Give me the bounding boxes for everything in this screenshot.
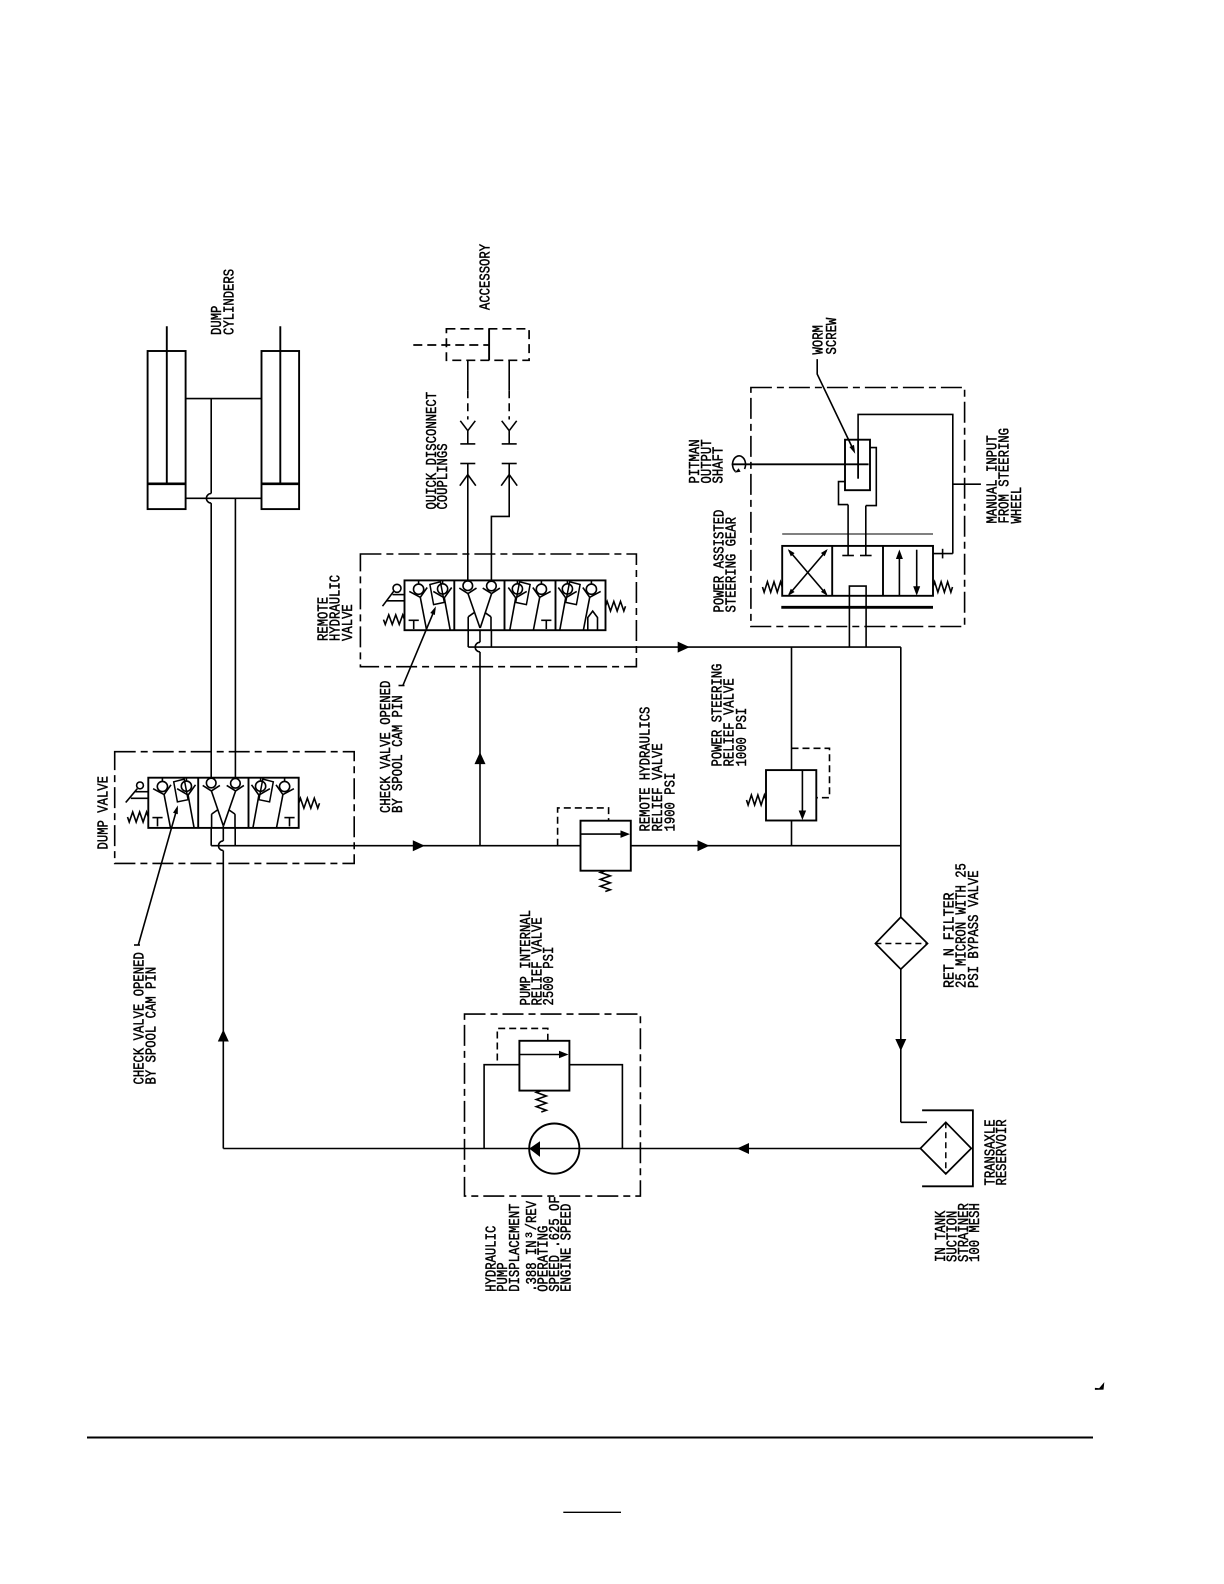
- wire steering relief drop lower: [791, 821, 793, 846]
- wire rod-end port line: [186, 398, 262, 400]
- dump cylinder 1 piston: [148, 482, 186, 485]
- steering valve center staple: [849, 586, 866, 647]
- wire filter to reservoir vertical: [900, 969, 902, 1122]
- steering relief pilot (dashed): [792, 748, 830, 797]
- power steering relief valve square: [766, 770, 816, 820]
- svg-text:DISPLACEMENT: DISPLACEMENT: [508, 1203, 524, 1292]
- pump flow triangle: [529, 1141, 540, 1157]
- dump cylinder 2 barrel: [262, 351, 300, 509]
- wire pump supply line vertical: [222, 851, 224, 1149]
- svg-text:CYLINDERS: CYLINDERS: [222, 269, 238, 335]
- dump valve section 3 (mirrored check valves): [252, 778, 295, 828]
- pump internal relief valve square: [519, 1041, 569, 1091]
- dump valve right spring: [299, 798, 320, 808]
- steering valve right section arrows: [898, 557, 900, 596]
- wire return into reservoir: [901, 1121, 927, 1123]
- pump bypass loop: [484, 1065, 622, 1149]
- dump cylinder 1 rod: [166, 326, 168, 484]
- svg-text:SCREW: SCREW: [825, 317, 841, 354]
- arrow on steering feed line: [678, 642, 690, 653]
- worm screw pin: [857, 440, 859, 479]
- pump relief spring: [536, 1091, 546, 1112]
- quick disconnect coupling line 1: [467, 360, 469, 390]
- pitman output shaft line: [732, 463, 869, 465]
- steering valve body: [782, 546, 933, 596]
- dump valve section 1 (check valves, cam box, tank T): [157, 781, 167, 791]
- suction strainer diamond: [920, 1122, 971, 1174]
- remote hydraulics relief valve square: [581, 821, 631, 871]
- svg-text:ENGINE SPEED: ENGINE SPEED: [560, 1204, 576, 1292]
- arrow up on pump supply: [218, 1030, 229, 1042]
- remote hydraulic valve enclosure (phantom box): [360, 554, 636, 667]
- dump valve enclosure (phantom box): [115, 752, 355, 864]
- remote valve section 2 (center): [463, 581, 473, 591]
- dump cylinder 1 barrel: [148, 351, 186, 509]
- arrow left on suction line: [737, 1143, 749, 1154]
- wire remote valve outlet stub left: [467, 630, 469, 647]
- remote valve lever arm: [383, 591, 395, 607]
- dump valve lever arm: [126, 789, 138, 803]
- wire steering feed down to filter: [900, 647, 902, 917]
- remote valve left spring: [384, 615, 405, 625]
- steering valve right port: [933, 553, 953, 555]
- wire dump valve outlet stub left: [210, 828, 212, 846]
- svg-text:ACCESSORY: ACCESSORY: [478, 244, 494, 310]
- svg-text:3: 3: [525, 1232, 536, 1238]
- svg-text:BY SPOOL CAM PIN: BY SPOOL CAM PIN: [145, 967, 161, 1085]
- wire dump valve outlet stub right: [234, 828, 236, 846]
- svg-text:VALVE: VALVE: [341, 604, 357, 641]
- manual input stub: [953, 483, 981, 485]
- strainer element (dashed): [945, 1122, 947, 1174]
- return filter diamond: [875, 917, 927, 969]
- steering valve crossed arrows: [789, 551, 827, 595]
- wire line A hop over base line: [206, 493, 211, 503]
- worm screw housing left step: [839, 482, 849, 505]
- svg-text:WHEEL: WHEEL: [1010, 487, 1026, 524]
- svg-text:2500 PSI: 2500 PSI: [542, 947, 558, 1006]
- footer short underline: [563, 1511, 621, 1513]
- relief valve pilot line (dashed): [558, 808, 609, 846]
- remote valve divider 1: [453, 580, 455, 630]
- footer page mark: [1096, 1384, 1104, 1389]
- filter element (dashed): [875, 943, 927, 945]
- wire remote valve outlet stub right: [490, 630, 492, 647]
- accessory rod (phantom): [413, 344, 489, 346]
- svg-text:PSI BYPASS VALVE: PSI BYPASS VALVE: [967, 870, 983, 988]
- remote valve lever roller: [393, 584, 401, 592]
- remote valve divider 3: [555, 580, 557, 630]
- steering valve divider 1: [831, 546, 833, 596]
- steering feedback line: [858, 414, 953, 553]
- remote valve section 4 pocket: [588, 611, 598, 630]
- leader line to dump valve check valve: [138, 808, 177, 945]
- accessory piston: [488, 329, 490, 361]
- arrow on run line right of relief: [698, 840, 710, 851]
- svg-text:RESERVOIR: RESERVOIR: [995, 1119, 1011, 1185]
- wire base-end port line: [186, 497, 262, 499]
- svg-text:1900 PSI: 1900 PSI: [664, 773, 680, 832]
- transaxle reservoir box: [922, 1110, 973, 1186]
- remote valve lever link 2: [386, 600, 405, 602]
- steering relief internal arrow: [801, 770, 803, 811]
- steering gear enclosure (phantom box): [751, 388, 965, 627]
- dump valve lever link 1: [135, 791, 148, 793]
- footer rule: [87, 1437, 1093, 1439]
- worm screw block: [845, 440, 870, 491]
- svg-text:DUMP VALVE: DUMP VALVE: [96, 776, 112, 850]
- pump relief flow arrow: [519, 1054, 560, 1056]
- pump circle: [529, 1124, 579, 1174]
- remote valve section 4 (mirrored, with pocket): [558, 580, 600, 630]
- dump valve section divider 2: [248, 778, 250, 828]
- relief valve spring: [600, 871, 610, 892]
- steering valve right spring: [933, 582, 953, 592]
- remote hydraulic valve body: [405, 580, 606, 630]
- svg-text:100 MESH: 100 MESH: [968, 1203, 984, 1262]
- wire dump valve center drain upper: [222, 826, 224, 841]
- hydraulic pump enclosure (phantom box): [465, 1014, 641, 1196]
- leader line to remote valve check valve: [403, 609, 435, 686]
- remote valve section 3 (mirrored): [508, 580, 551, 630]
- remote valve lever link 1: [393, 594, 405, 596]
- dump valve section divider 1: [197, 778, 199, 828]
- leader line to worm screw: [817, 359, 853, 449]
- steering valve left spring: [763, 582, 783, 592]
- wire main run line (dump valve to relief valve): [211, 845, 580, 847]
- wire remote valve center drain upper: [479, 630, 481, 643]
- arrow up on remote supply: [475, 752, 486, 764]
- dump cylinder 2 piston: [262, 482, 300, 485]
- worm screw housing right step: [866, 448, 877, 506]
- remote valve right spring: [606, 601, 626, 611]
- dump cylinder 2 rod: [279, 326, 281, 484]
- pump relief pilot (dashed): [497, 1028, 548, 1064]
- svg-text:STEERING GEAR: STEERING GEAR: [725, 517, 741, 613]
- dump valve left spring: [128, 812, 149, 822]
- relief valve flow arrow: [581, 833, 623, 835]
- wire cylinder line B: [234, 498, 236, 777]
- arrow down to reservoir: [895, 1039, 906, 1051]
- wire remote supply vertical: [479, 652, 481, 846]
- dump valve lever link 2: [131, 797, 149, 799]
- dump valve section 2 (center passages): [206, 778, 216, 788]
- steering gear thick sector line: [781, 606, 933, 609]
- wire steering relief drop upper: [791, 647, 793, 770]
- rotation arrow on pitman shaft: [733, 456, 746, 472]
- wire cylinder line A lower: [210, 503, 212, 778]
- svg-text:COUPLINGS: COUPLINGS: [436, 443, 452, 509]
- wire remote drain hop: [475, 642, 480, 652]
- svg-text:SHAFT: SHAFT: [712, 446, 728, 483]
- svg-text:BY SPOOL CAM PIN: BY SPOOL CAM PIN: [391, 695, 407, 813]
- arrow on run line: [413, 840, 425, 851]
- wire drain hop over run line: [219, 841, 224, 851]
- wire steering feed line: [468, 646, 901, 648]
- wire cylinder line A upper: [210, 399, 212, 494]
- svg-text:1000 PSI: 1000 PSI: [735, 708, 751, 767]
- dump valve lever roller: [137, 782, 144, 789]
- steering relief spring: [747, 795, 767, 805]
- quick disconnect coupling line 2: [508, 360, 510, 390]
- steering valve spool pins: [847, 505, 849, 556]
- steering valve divider 2: [882, 546, 884, 596]
- wire pump main line horizontal: [223, 1148, 920, 1150]
- wire run line (relief to filter line): [631, 845, 902, 847]
- remote valve section 1: [414, 584, 424, 594]
- remote valve divider 2: [504, 580, 506, 630]
- accessory cylinder (phantom): [446, 329, 529, 361]
- dump valve body: [148, 778, 298, 828]
- steering gear thin rack line: [782, 533, 933, 535]
